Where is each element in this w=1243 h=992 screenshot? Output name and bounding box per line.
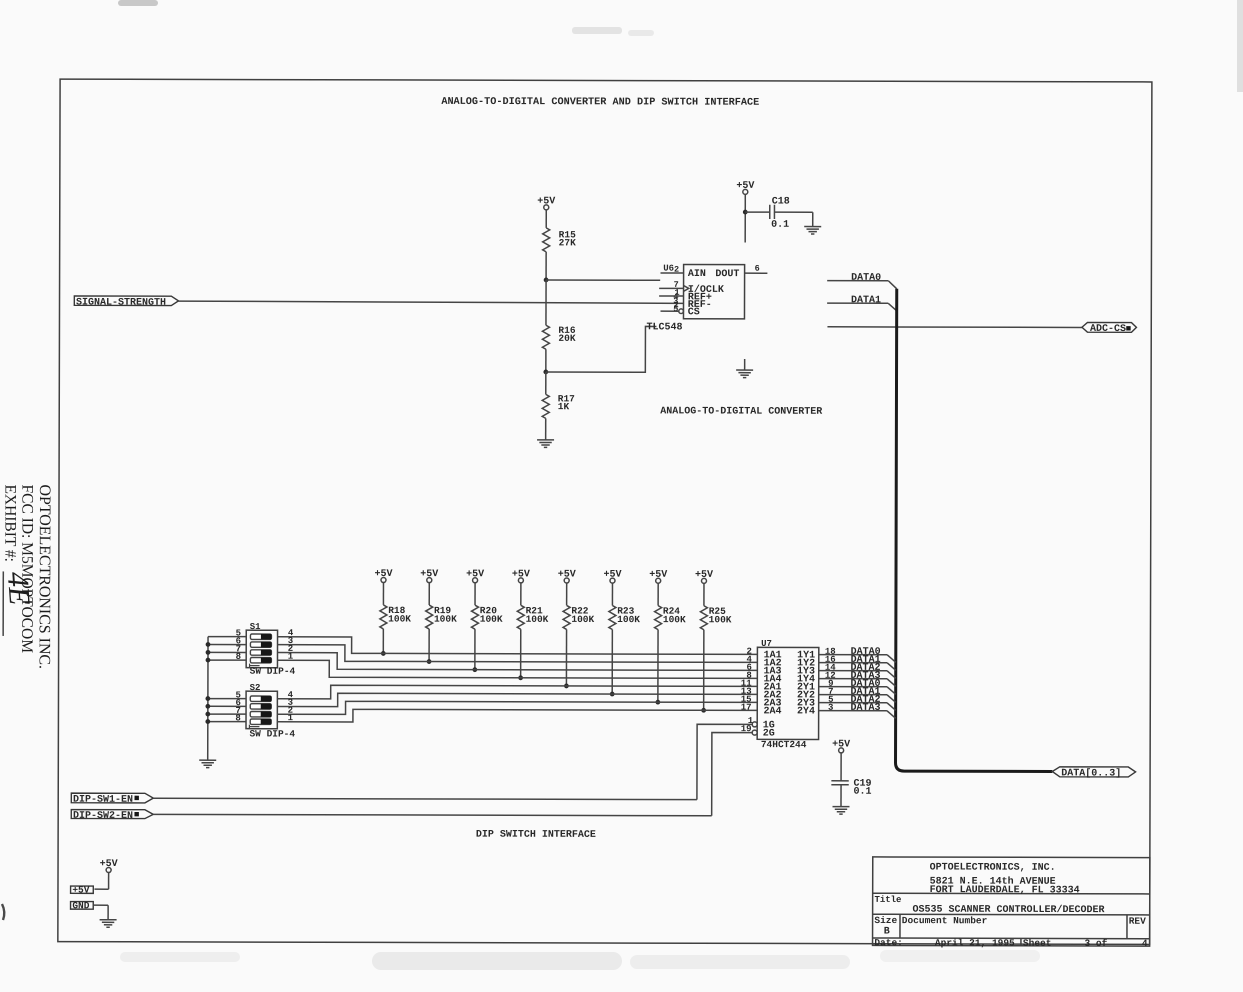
svg-text:FCC ID: M5MOPTOCOM: FCC ID: M5MOPTOCOM: [18, 484, 35, 653]
svg-text:8: 8: [235, 713, 240, 723]
svg-text:EXHIBIT #:: EXHIBIT #:: [1, 484, 18, 562]
svg-text:100K: 100K: [388, 613, 411, 624]
svg-text:27K: 27K: [559, 237, 576, 248]
svg-text:4: 4: [1142, 938, 1148, 949]
svg-text:ADC-CS: ADC-CS: [1090, 324, 1126, 335]
svg-text:100K: 100K: [709, 614, 732, 625]
svg-text:6: 6: [755, 264, 760, 274]
svg-text:AIN: AIN: [688, 269, 706, 280]
svg-text:DATA0: DATA0: [851, 273, 881, 284]
svg-text:DATA3: DATA3: [850, 703, 880, 714]
svg-text:ANALOG-TO-DIGITAL CONVERTER: ANALOG-TO-DIGITAL CONVERTER: [660, 406, 822, 417]
svg-text:Date:: Date:: [874, 937, 903, 948]
svg-text:U7: U7: [761, 639, 772, 649]
svg-text:2A4: 2A4: [763, 706, 781, 717]
svg-text:DATA[0..3]: DATA[0..3]: [1061, 767, 1121, 779]
svg-text:S2: S2: [250, 683, 261, 693]
svg-text:100K: 100K: [617, 614, 640, 625]
svg-text:SW DIP-4: SW DIP-4: [249, 728, 295, 739]
svg-text:5: 5: [673, 304, 678, 314]
svg-text:100K: 100K: [480, 614, 503, 625]
svg-text:100K: 100K: [434, 614, 457, 625]
svg-text:3 of: 3 of: [1085, 938, 1108, 949]
svg-text:20K: 20K: [558, 333, 575, 344]
svg-text:1K: 1K: [558, 401, 570, 412]
svg-text:Document Number: Document Number: [902, 915, 988, 926]
svg-text:2G: 2G: [763, 729, 775, 740]
svg-text:Size: Size: [874, 915, 897, 926]
svg-text:S1: S1: [250, 622, 261, 632]
svg-text:74HCT244: 74HCT244: [761, 739, 807, 750]
svg-text:OPTOELECTRONICS, INC.: OPTOELECTRONICS, INC.: [930, 862, 1056, 873]
svg-text:CS: CS: [688, 307, 700, 318]
svg-text:GND: GND: [72, 900, 89, 911]
svg-text:DIP SWITCH INTERFACE: DIP SWITCH INTERFACE: [476, 830, 596, 841]
svg-text:TLC548: TLC548: [646, 322, 682, 333]
svg-text:100K: 100K: [663, 614, 686, 625]
svg-text:DIP-SW2-EN: DIP-SW2-EN: [73, 811, 133, 822]
svg-text:+5V: +5V: [72, 885, 89, 896]
svg-text:U6: U6: [663, 264, 674, 274]
svg-text:SW DIP-4: SW DIP-4: [250, 666, 296, 677]
svg-text:Title: Title: [874, 895, 901, 905]
svg-text:FORT LAUDERDALE, FL 33334: FORT LAUDERDALE, FL 33334: [930, 885, 1080, 896]
svg-text:REV: REV: [1129, 916, 1146, 927]
svg-text:C18: C18: [772, 196, 790, 207]
svg-text:2Y4: 2Y4: [797, 706, 815, 717]
svg-text:April 21, 1995: April 21, 1995: [935, 937, 1015, 948]
svg-text:0.1: 0.1: [854, 787, 872, 798]
svg-text:ANALOG-TO-DIGITAL CONVERTER AN: ANALOG-TO-DIGITAL CONVERTER AND DIP SWIT…: [441, 97, 759, 109]
svg-text:DOUT: DOUT: [715, 269, 739, 280]
svg-text:SIGNAL-STRENGTH: SIGNAL-STRENGTH: [76, 298, 166, 309]
svg-text:8: 8: [236, 652, 241, 662]
svg-text:Sheet: Sheet: [1023, 938, 1052, 949]
svg-text:0.1: 0.1: [771, 220, 789, 231]
svg-text:B: B: [884, 927, 890, 938]
svg-text:100K: 100K: [526, 614, 549, 625]
svg-text:DIP-SW1-EN: DIP-SW1-EN: [73, 795, 133, 806]
svg-text:DATA1: DATA1: [851, 295, 881, 306]
svg-text:OPTOELECTRONICS INC.: OPTOELECTRONICS INC.: [36, 485, 53, 670]
svg-text:4E: 4E: [1, 571, 36, 606]
svg-text:100K: 100K: [571, 614, 594, 625]
